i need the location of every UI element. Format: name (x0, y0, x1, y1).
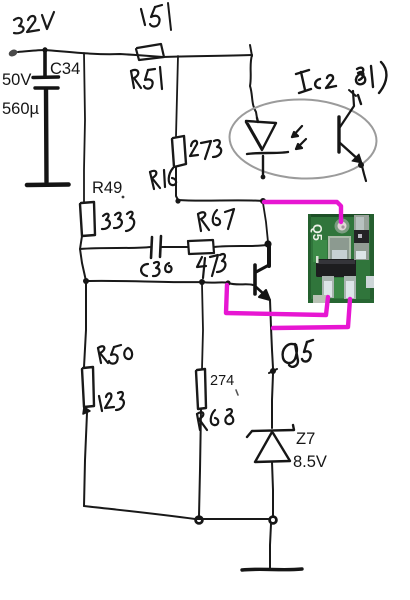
magenta wire to Q5 collector pad on photo (264, 202, 341, 222)
handwritten: 32V (14, 12, 54, 33)
handwritten: Q5 near emitter (283, 340, 313, 367)
wire: LED cathode node down to Q5 collector (263, 203, 268, 242)
resistor R68 (196, 369, 206, 409)
opto ellipse IC2 (228, 97, 378, 181)
wire: stub above R51 (168, 3, 171, 30)
handwritten: 333 (102, 212, 134, 231)
collector pad (328, 236, 351, 262)
handwritten: R68 (197, 409, 233, 430)
resistor R50 (82, 367, 94, 407)
handwritten: IC2 81) (296, 62, 386, 104)
ground (242, 569, 302, 570)
bottom left pad (313, 295, 328, 303)
label Z7 (296, 430, 315, 449)
wire: R50 to bottom wire (84, 413, 87, 506)
resistor R49 (80, 202, 95, 236)
transistor Q5 (255, 244, 270, 300)
wire: R68 to bottom wire (199, 409, 201, 516)
label 50V (2, 71, 31, 90)
wire: node A to C36 (80, 247, 151, 249)
handwritten: R16 (150, 168, 176, 189)
handwritten: 123 (99, 392, 124, 411)
LED diode of IC2 (246, 118, 288, 176)
handwritten: R51 (131, 67, 162, 89)
wire: base wire from node A to Q5 base (86, 281, 253, 285)
wire: top supply rail (18, 50, 252, 57)
top via pad (335, 219, 350, 234)
right edge pad (366, 276, 374, 288)
wire: R16 column from rail (176, 56, 178, 136)
capacitor C34 (27, 47, 69, 185)
handwritten: R50 (98, 345, 132, 364)
wire: R50 column (84, 281, 86, 367)
handwritten: C36 (141, 262, 171, 276)
speck near 274 (236, 390, 238, 395)
node: loop at R68 bottom (196, 517, 203, 524)
zener Z7 (247, 425, 294, 462)
phototransistor of IC2 (339, 90, 366, 181)
capacitor C36 (151, 236, 161, 258)
handwritten: 15 above R51 (141, 5, 162, 27)
wire: bottom horizontal (84, 506, 269, 519)
light arrows (292, 126, 306, 149)
node: 32V input terminal dot (8, 48, 19, 58)
label R49 (92, 179, 122, 198)
right side component (354, 215, 369, 233)
node: knot on emitter wire (270, 368, 276, 374)
node: bottom junction loop (270, 517, 277, 524)
speck near R49 (122, 196, 125, 199)
resistor R67 (188, 240, 214, 254)
handwritten: 473 (197, 254, 225, 278)
wire: R49 column from rail (84, 53, 85, 202)
label 8.5V (293, 453, 327, 472)
wire: rail corner down to LED (250, 55, 257, 118)
photo inset: PCB with Q5 (308, 214, 374, 303)
wire: R49 to node A (80, 236, 86, 281)
label 274 (210, 373, 234, 389)
wire: R16 down and right to LED-cathode node (176, 167, 264, 201)
magenta wire from base tap to photo left pad (226, 285, 328, 315)
wire: C36 to R67 to collector node (161, 246, 188, 248)
resistor R51 (136, 44, 164, 60)
wire: zener to bottom node (272, 462, 273, 516)
handwritten: R67 (198, 209, 234, 231)
wire: bottom node to ground (270, 524, 271, 568)
handwritten: 273 beside R16 (190, 140, 221, 159)
wire: R68 column (202, 284, 203, 369)
left leg (322, 276, 334, 298)
magenta wire from emitter to photo right pad (273, 299, 350, 328)
right leg (344, 276, 356, 299)
resistor R16 (172, 136, 186, 167)
SOT-23 body (316, 259, 356, 277)
label C34 (50, 60, 80, 79)
svg-text:Q5: Q5 (310, 224, 324, 241)
wire: Q5 emitter down (270, 300, 273, 368)
label 560u (2, 100, 39, 119)
